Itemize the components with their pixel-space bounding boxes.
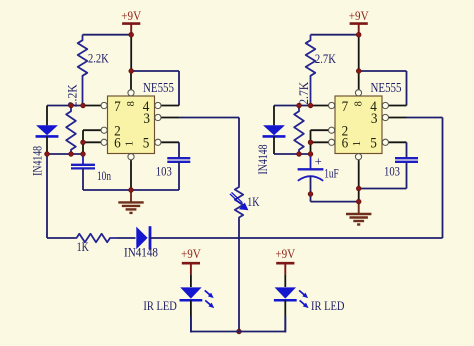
wire pin 5 to C2 xyxy=(161,141,180,143)
junction dot (83.0,142.3) xyxy=(81,140,86,145)
junction dot bottom xyxy=(237,329,242,334)
wire pin 3 output xyxy=(161,117,180,119)
wire ground row left xyxy=(83,189,179,191)
capacitor C2 103 xyxy=(167,157,190,159)
wire LED anode xyxy=(284,274,286,287)
wire stubs pins 2 and 6 xyxy=(83,129,102,131)
wire D3 to right output xyxy=(150,237,443,239)
svg-text:1uF: 1uF xyxy=(324,167,339,181)
svg-text:NE555: NE555 xyxy=(143,80,174,95)
pin circle U1 pin 8 xyxy=(128,90,134,96)
junction dot (299.0,154.0) xyxy=(297,152,302,157)
pin circle U2 pin 4 xyxy=(382,102,388,108)
junction dot (71.0,105.5) xyxy=(69,103,74,108)
pin circle U2 pin 3 xyxy=(382,114,388,120)
diode D3 IN4148 horizontal xyxy=(136,227,147,250)
resistor R2 2.2K xyxy=(66,106,76,155)
wire pin 4 to supply xyxy=(131,70,179,72)
svg-text:2.2K: 2.2K xyxy=(88,50,109,65)
svg-text:+9V: +9V xyxy=(181,247,201,261)
wire stub pin 7 right xyxy=(311,105,330,107)
pin circle U1 pin 1 xyxy=(128,154,134,160)
svg-text:IR LED: IR LED xyxy=(311,298,345,313)
wire node row right y154 xyxy=(274,153,311,155)
wire pin 8 / supply xyxy=(130,35,132,71)
wire stub pin 7 xyxy=(83,105,102,107)
wire LED cathode xyxy=(284,316,286,332)
wire pin 4 right to supply xyxy=(359,70,407,72)
junction dot (310.5,105.5) xyxy=(308,103,313,108)
svg-text:6: 6 xyxy=(114,135,121,151)
pin circle U1 pin 3 xyxy=(155,114,161,120)
pin circle U1 pin 6 xyxy=(101,139,107,145)
svg-text:NE555: NE555 xyxy=(371,80,402,95)
resistor R1 2.2K xyxy=(78,35,88,106)
wire 103 return xyxy=(359,188,407,190)
pin circle U2 pin 7 xyxy=(329,102,335,108)
junction dot (131.2,71.0) xyxy=(129,69,134,74)
timer IC U1 NE555 body xyxy=(108,96,155,154)
svg-text:8: 8 xyxy=(126,101,137,106)
wire node row y154 xyxy=(47,153,83,155)
junction dot (47.0,154.0) xyxy=(45,152,50,157)
svg-text:5: 5 xyxy=(143,135,150,151)
wire LED cathode xyxy=(190,316,192,332)
svg-text:7: 7 xyxy=(342,99,349,115)
IR LED D4 xyxy=(180,287,201,298)
wire +9V to R3 xyxy=(311,34,359,36)
svg-text:2.7K: 2.7K xyxy=(296,81,311,105)
svg-text:8: 8 xyxy=(353,101,364,106)
wire pin7 row right xyxy=(274,105,311,107)
wire pin7 row left xyxy=(47,105,83,107)
wire LED anode xyxy=(190,274,192,287)
wire pin 1 xyxy=(130,156,132,190)
pin circle U1 pin 5 xyxy=(155,139,161,145)
svg-text:IN4148: IN4148 xyxy=(255,145,270,175)
timer IC U2 NE555 body xyxy=(335,96,382,154)
junction dot (358.7,201.6) xyxy=(356,199,361,204)
pin circle U2 pin 1 xyxy=(355,154,361,160)
svg-text:+9V: +9V xyxy=(275,247,295,261)
diode D2 IN4148 xyxy=(273,106,275,126)
wire C3 to ground node xyxy=(311,201,359,203)
svg-text:6: 6 xyxy=(342,135,349,151)
svg-text:1: 1 xyxy=(124,141,136,147)
svg-text:103: 103 xyxy=(156,163,172,178)
svg-text:3: 3 xyxy=(143,111,150,127)
junction dot (83.0,105.5) xyxy=(81,103,86,108)
svg-text:5: 5 xyxy=(370,135,377,151)
diode D1 IN4148 xyxy=(46,106,48,126)
junction dot (310.5,142.3) xyxy=(308,140,313,145)
junction dot (358.7,71.0) xyxy=(356,69,361,74)
svg-text:103: 103 xyxy=(384,163,400,178)
wire bottom row xyxy=(47,237,75,239)
IR LED D5 xyxy=(275,287,296,298)
pin circle U1 pin 2 xyxy=(101,127,107,133)
svg-text:+9V: +9V xyxy=(121,9,141,23)
junction dot (310.5,194.0) xyxy=(308,192,313,197)
svg-text:3: 3 xyxy=(371,111,378,127)
capacitor C4 103 xyxy=(395,157,418,159)
wire stubs pins 2 and 6 right xyxy=(311,129,330,131)
pin circle U2 pin 6 xyxy=(329,139,335,145)
svg-text:IR LED: IR LED xyxy=(143,298,177,313)
wire pin 3 right output xyxy=(388,117,407,119)
junction dot (299.0,105.5) xyxy=(297,103,302,108)
capacitor C1 10n xyxy=(82,154,84,164)
junction dot (131.2,34.7) xyxy=(129,32,134,37)
resistor R5 1K xyxy=(75,234,118,242)
junction dot (310.5,154.0) xyxy=(308,152,313,157)
pin circle U1 pin 4 xyxy=(155,102,161,108)
junction dot (131.0,190.0) xyxy=(129,188,134,193)
svg-text:1: 1 xyxy=(351,141,363,147)
svg-text:+: + xyxy=(315,154,322,168)
resistor R4 2.7K xyxy=(294,106,304,155)
capacitor C3 1uF polarized xyxy=(310,154,312,169)
pin circle U1 pin 7 xyxy=(101,102,107,108)
ground (right) xyxy=(358,202,360,214)
wire left drop to bottom row xyxy=(46,154,48,238)
potentiometer RV1 1K xyxy=(238,118,240,186)
wire pin 8 right / supply xyxy=(358,35,360,71)
wire pin 5 right to C4 xyxy=(388,141,407,143)
pin circle U2 pin 8 xyxy=(355,90,361,96)
junction dot (358.7,188.5) xyxy=(356,186,361,191)
pin circle U2 pin 5 xyxy=(382,139,388,145)
junction dot (83.0,154.0) xyxy=(81,152,86,157)
svg-text:1K: 1K xyxy=(247,194,260,209)
resistor R3 2.7K xyxy=(306,35,316,106)
svg-text:1K: 1K xyxy=(77,239,90,254)
wire +9V to R1 xyxy=(83,34,132,36)
svg-text:2.7K: 2.7K xyxy=(315,51,336,66)
wire bottom LED row xyxy=(191,331,285,333)
wire pin 1 right xyxy=(358,156,360,201)
svg-text:IN4148: IN4148 xyxy=(29,146,44,176)
junction dot (71.0,154.0) xyxy=(69,152,74,157)
svg-text:7: 7 xyxy=(114,99,121,115)
svg-text:10n: 10n xyxy=(97,168,111,183)
svg-text:IN4148: IN4148 xyxy=(124,245,158,260)
pin circle U2 pin 2 xyxy=(329,127,335,133)
svg-text:+9V: +9V xyxy=(349,9,369,23)
junction dot (358.7,34.7) xyxy=(356,32,361,37)
ground (left) xyxy=(130,190,132,202)
